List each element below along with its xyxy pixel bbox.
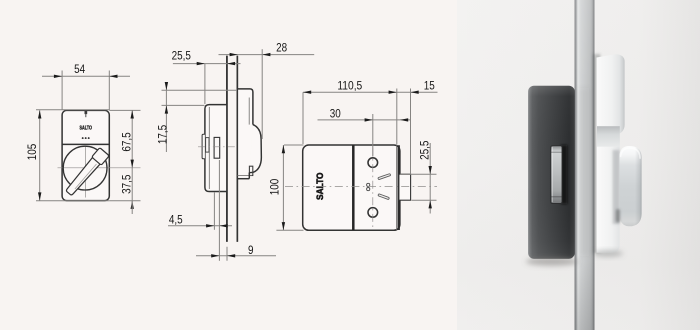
outside unit: lower slanted sliver mark [378, 194, 390, 200]
svg-text:4,5: 4,5 [169, 213, 183, 227]
svg-text:67,5: 67,5 [119, 132, 133, 151]
outside unit: upper screw hole [368, 158, 378, 168]
front view: three dots [82, 137, 90, 139]
front view: knob circle [63, 146, 107, 190]
outside unit: inner right line [396, 145, 398, 230]
side view: glass line overdraw right [236, 56, 238, 242]
photo: glass panel [575, 0, 595, 330]
dim 100: extension lines [284, 144, 304, 146]
outside unit: upper slanted sliver mark [378, 174, 391, 180]
dim 4,5: dimension line [168, 225, 232, 227]
photo: white unit shadow on glass [593, 54, 601, 253]
side view: outside unit bottom lines [237, 175, 252, 177]
front view: lever handle [64, 148, 109, 198]
side view: thumbturn shaft detail [206, 138, 209, 153]
svg-text:25,5: 25,5 [418, 140, 432, 159]
svg-text:SALTO: SALTO [80, 126, 92, 132]
dim 30: dimension line [318, 119, 412, 121]
dims 67,5 / 37,5: dimension line [131, 110, 133, 208]
side view: horizontal centerline [198, 146, 248, 148]
front view: divider line [62, 143, 109, 145]
svg-text:37,5: 37,5 [119, 174, 133, 193]
svg-text:54: 54 [74, 62, 85, 76]
front view: vertical centerline [84, 147, 86, 198]
photo: dark inside unit [528, 86, 575, 259]
svg-text:25,5: 25,5 [172, 49, 191, 63]
dim 17,5: extension lines [162, 89, 238, 91]
side view: glass line overdraw left [226, 56, 228, 242]
dim 15: extension + dimension line [410, 89, 412, 175]
photo: thumbturn metallic bar [561, 145, 568, 204]
front view: top notch slot [85, 111, 88, 114]
side view: handle hook detail [249, 166, 252, 175]
side view: inside unit body [205, 105, 227, 192]
photo: glass darker behind lock [578, 88, 589, 256]
side view: outside handle profile [249, 125, 261, 173]
outside unit: spindle tab right [399, 174, 411, 200]
front view: horizontal centerline / extension to 67,5 dim [58, 167, 141, 169]
side view: glass panel lines [226, 56, 228, 242]
photo: background [457, 0, 700, 330]
dim 25,5 tab: extension lines [400, 173, 437, 175]
front view: escutcheon outline [62, 110, 109, 200]
svg-text:110,5: 110,5 [337, 79, 362, 93]
svg-text:30: 30 [330, 106, 341, 120]
outside unit: lower screw hole [368, 208, 378, 218]
dim 4,5: extension lines below clamp [213, 193, 215, 230]
photo: dark unit bottom drop shadow [526, 257, 578, 265]
outside unit: center spindle mark [367, 183, 370, 186]
svg-text:100: 100 [268, 179, 282, 196]
photo: handle-body junction shadow [616, 209, 620, 223]
photo: white unit recess strip [597, 126, 620, 147]
svg-text:28: 28 [276, 40, 287, 54]
dim 25,5: dimension line [173, 63, 241, 65]
dim 105: dimension line [39, 110, 41, 200]
dim 9: dimension line [196, 255, 276, 257]
svg-text:15: 15 [424, 79, 435, 93]
side view: inside unit inner cover line [208, 107, 210, 189]
photo: outside lever handle [620, 146, 642, 226]
photo: white unit bottom shadow [593, 250, 623, 256]
dim 30: extension line [372, 114, 374, 157]
side view: thumbturn profile bump [202, 134, 205, 159]
dim 17,5: dimension line [165, 82, 167, 152]
dim 105: extension lines [36, 109, 109, 111]
outside unit: thick divider seam [352, 145, 355, 230]
dim 54: dimension line [42, 75, 130, 77]
dim 9: right extension stub [226, 247, 228, 261]
side view: clamp plate rect [214, 137, 220, 158]
side view: outside unit body [237, 89, 253, 179]
outside unit: thick glass-side right edge [398, 145, 400, 230]
svg-text:105: 105 [25, 144, 39, 161]
svg-text:9: 9 [248, 243, 254, 257]
photo: white outside unit slab [597, 54, 625, 252]
dim 25,5 tab: dimension line [429, 143, 431, 214]
dim 100: dimension line [282, 145, 284, 230]
dim 28: right extension line [261, 49, 263, 139]
dim 25,5: left extension line [204, 64, 206, 104]
dim 110,5: dimension line [303, 91, 397, 93]
dim 54: extension lines [61, 71, 63, 111]
dim 28: dimension line [219, 54, 315, 56]
side view: outside unit inner line [248, 98, 250, 125]
svg-text:17,5: 17,5 [155, 125, 169, 144]
outside unit: horizontal centerline [285, 185, 437, 187]
dims 67,5 / 37,5: extension lines right [109, 109, 140, 111]
outside unit front view: body [303, 145, 400, 230]
photo: handle shadow on slab [613, 150, 620, 224]
outside unit: vertical centerline [372, 148, 374, 228]
dim 110,5: extension lines [302, 92, 304, 144]
